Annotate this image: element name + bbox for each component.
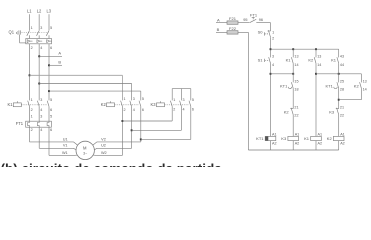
contactor K3 contact terminal 4	[183, 107, 185, 111]
junction rail2a col1	[270, 73, 272, 75]
svg-text:1: 1	[173, 98, 175, 102]
svg-text:2: 2	[31, 46, 33, 50]
wire K2 22 to K3 coil	[292, 115, 294, 137]
svg-text:KT1: KT1	[280, 83, 288, 88]
contactor K1 label	[7, 102, 13, 107]
star bridge bar of K3	[172, 88, 191, 90]
terminal K3-A1	[295, 133, 300, 137]
svg-text:2: 2	[124, 108, 126, 112]
svg-text:A2: A2	[295, 141, 300, 145]
terminal K2-A1	[340, 133, 345, 137]
svg-text:A1: A1	[295, 133, 300, 137]
svg-text:6: 6	[50, 108, 52, 112]
contactor K2 contact 3-4 blade	[130, 101, 132, 107]
contactor K1 contact terminal 4	[40, 108, 42, 112]
svg-text:96: 96	[259, 18, 263, 22]
svg-text:K2: K2	[327, 136, 333, 141]
wire KT1 28 to K3 21	[338, 88, 340, 108]
contactor K2 label	[101, 102, 107, 107]
timer contact KT1 15-18 blade	[288, 82, 293, 88]
wire K2-6 down to V2	[140, 106, 142, 141]
terminal K2-14	[317, 63, 321, 67]
terminal K1-43	[340, 54, 344, 58]
contactor K1 contact 5-6 blade	[47, 101, 49, 107]
contact K1 43-44 label	[331, 58, 337, 63]
overload FT1 terminal 6	[50, 128, 52, 132]
svg-text:14: 14	[317, 63, 321, 67]
svg-text:K2: K2	[284, 110, 290, 115]
rail1 after S0	[271, 48, 339, 50]
caption (clipped)	[1, 162, 223, 177]
pushbutton S1 label	[258, 58, 264, 63]
svg-text:V2: V2	[101, 137, 106, 141]
junction K2-2 bridge	[121, 120, 123, 122]
svg-text:K1: K1	[331, 58, 337, 63]
wire col5 return to col4	[339, 88, 362, 99]
terminal K1-A2	[318, 141, 323, 145]
svg-text:U1: U1	[63, 137, 68, 141]
breaker Q1 pole terminal 5	[50, 26, 52, 30]
terminal KT1-25	[340, 79, 344, 83]
svg-text:25: 25	[340, 79, 344, 83]
node L3	[47, 9, 52, 14]
svg-text:2: 2	[31, 128, 33, 132]
node L1	[27, 9, 32, 14]
overload FT1 NC contact 95-96	[250, 17, 256, 22]
svg-text:K2: K2	[308, 58, 314, 63]
terminal K2-22	[294, 114, 298, 118]
node B (control)	[217, 27, 220, 32]
contactor K1 contact 1-2 blade	[28, 101, 30, 107]
breaker Q1 mechanical link (dashed)	[22, 32, 49, 34]
terminal K1-44	[340, 63, 344, 67]
terminal K1-14	[294, 63, 298, 67]
svg-text:15: 15	[294, 79, 298, 83]
svg-text:L1: L1	[27, 9, 32, 14]
overload FT1 terminal 3	[40, 115, 42, 119]
breaker Q1 magnetic trip symbol at x=29.5	[27, 40, 32, 43]
svg-text:4: 4	[40, 128, 42, 132]
svg-text:3: 3	[133, 97, 135, 101]
contact K1 43-44 blade	[337, 57, 339, 63]
motor M1 circle	[76, 141, 94, 159]
label U2	[101, 144, 106, 148]
fuse F22	[227, 31, 238, 34]
overload relay FT1 box	[26, 121, 52, 127]
svg-text:6: 6	[50, 128, 52, 132]
pushbutton S0 plunger	[265, 32, 269, 35]
wire L2 drop	[38, 14, 40, 30]
wire motor U2 lead	[94, 148, 131, 150]
wire Q1 operator to trip box	[20, 35, 26, 43]
svg-text:1: 1	[31, 115, 33, 119]
svg-text:43: 43	[340, 54, 344, 58]
terminal K2-13 (parallel)	[363, 79, 367, 83]
terminal KT1-A2	[272, 141, 277, 145]
wire phase1 breaker to K1	[29, 44, 31, 101]
contact K1 13-14 blade	[291, 57, 293, 63]
svg-text:3: 3	[40, 98, 42, 102]
terminal K3-21	[340, 106, 344, 110]
svg-text:18: 18	[294, 88, 298, 92]
wire S0 to rail1	[270, 37, 272, 57]
contactor K1 contact terminal 6	[50, 108, 52, 112]
svg-text:S0: S0	[258, 29, 264, 34]
svg-text:Q1: Q1	[9, 30, 15, 35]
wire motor V2 lead	[92, 142, 141, 146]
terminal K2-21	[294, 106, 298, 110]
svg-text:28: 28	[340, 88, 344, 92]
breaker Q1 pole 1 blade	[27, 30, 30, 38]
svg-text:1: 1	[124, 97, 126, 101]
wire K3 coil to rail	[292, 141, 294, 150]
contact K2 21-22 blade (NC)	[290, 108, 293, 115]
terminal K1-A1	[318, 133, 323, 137]
svg-text:F22: F22	[229, 26, 237, 31]
terminal KT1-15	[294, 79, 298, 83]
terminal K3-22	[340, 114, 344, 118]
svg-text:K3: K3	[281, 136, 287, 141]
svg-text:6: 6	[192, 107, 194, 111]
contactor K1 contact terminal 2	[31, 108, 33, 112]
wire A-rail to S0	[270, 23, 272, 31]
svg-text:L3: L3	[47, 9, 52, 14]
contactor coil K3	[288, 136, 299, 140]
svg-text:KT1: KT1	[256, 136, 264, 141]
contactor K3 contact terminal 2	[173, 107, 175, 111]
svg-text:3: 3	[272, 54, 274, 58]
contact K2 21-22 label	[284, 110, 290, 115]
pushbutton S1 plunger	[265, 59, 269, 62]
wire FT1 to motor V1	[39, 127, 76, 150]
wire K2-4 down to U2	[131, 106, 133, 148]
contact K3 21-22 label	[329, 110, 335, 115]
contactor K3 label	[150, 102, 156, 107]
svg-text:F21: F21	[229, 16, 237, 21]
svg-text:K1: K1	[7, 102, 13, 107]
contactor K1 contact terminal 5	[50, 98, 52, 102]
contactor K1 coil symbol	[13, 101, 21, 107]
svg-text:5: 5	[50, 98, 52, 102]
svg-text:2: 2	[173, 107, 175, 111]
pushbutton S0 label	[258, 29, 264, 34]
svg-text:A: A	[58, 51, 61, 56]
contact K1 13-14 label	[286, 58, 292, 63]
node A tap junction	[38, 55, 40, 57]
svg-text:4: 4	[40, 108, 42, 112]
terminal 95	[243, 18, 247, 22]
breaker Q1 pole terminal 1	[31, 26, 33, 30]
junction phase1 to K2 feed	[29, 74, 31, 76]
node L2	[37, 9, 42, 14]
contactor coil K2	[333, 136, 344, 140]
contactor coil K1 label	[304, 136, 310, 141]
junction K2-4 bridge	[131, 129, 133, 131]
wire K1 2 to FT1	[29, 106, 31, 121]
timer coil KT1	[265, 136, 276, 140]
wire K2 14 to K1 coil	[315, 63, 317, 136]
overload FT1 heater element at x=49.0	[47, 121, 49, 127]
pushbutton S1 NO contact 3-4	[269, 57, 271, 63]
node B	[58, 60, 61, 65]
wire rail1 to K2 13	[315, 49, 317, 57]
overload FT1 terminal 4	[40, 128, 42, 132]
wire FT1 to motor W1	[49, 127, 78, 155]
terminal KT1-18	[294, 88, 298, 92]
label W1	[62, 151, 68, 155]
terminal K2-A2	[340, 141, 345, 145]
contactor K2 contact 1-2 blade	[121, 101, 123, 107]
breaker Q1 pole 3 blade	[37, 30, 40, 38]
wire S1 to KT1 coil	[270, 63, 272, 136]
wire bridge K2-4 to K3-4	[132, 106, 182, 130]
svg-text:6: 6	[142, 108, 144, 112]
wire star bar to K3 contact at x=190.8	[190, 89, 192, 101]
label U1	[63, 137, 68, 141]
breaker Q1 magnetic trip symbol at x=39.2	[37, 40, 42, 43]
wire KT1 18 to K2 21	[292, 88, 294, 108]
wire node B to fuse F22	[216, 31, 227, 33]
overload relay FT1 label	[16, 121, 24, 126]
svg-text:K2: K2	[101, 102, 107, 107]
svg-text:13: 13	[317, 54, 321, 58]
contact K2 13-14 (parallel) label	[354, 83, 360, 88]
svg-text:4: 4	[40, 46, 42, 50]
wire FT1 to motor U1	[30, 127, 79, 146]
svg-text:(b) circuito de comando da par: (b) circuito de comando da partida	[1, 162, 223, 168]
wire K2 coil to rail	[338, 141, 340, 150]
fuse F22 label	[229, 26, 237, 31]
contactor K3 coil symbol	[157, 101, 165, 107]
node B tap junction	[48, 64, 50, 66]
node A	[58, 51, 61, 56]
svg-text:5: 5	[142, 97, 144, 101]
terminal S0-2	[272, 37, 274, 41]
contactor K2 link (dashed)	[115, 104, 140, 106]
breaker Q1 magnetic trip symbol at x=49.0	[47, 40, 52, 43]
breaker Q1 operator	[16, 30, 20, 34]
terminal S1-3	[272, 54, 274, 58]
contactor coil K2 label	[327, 136, 333, 141]
breaker Q1 output terminal 4	[40, 46, 42, 50]
wire F21 to FT1 contact	[238, 22, 250, 24]
wire star bar to K3 contact at x=181.4	[180, 89, 182, 101]
wire rail1 to K1 43	[338, 49, 340, 57]
junction rail2b col3	[315, 73, 317, 75]
contactor K3 link (dashed)	[165, 104, 190, 106]
svg-text:A: A	[217, 17, 220, 22]
contactor K1 link (dashed)	[21, 104, 47, 106]
breaker Q1 pole 5 blade	[46, 30, 49, 38]
svg-text:B: B	[58, 60, 61, 65]
breaker Q1 pole terminal 3	[40, 26, 42, 30]
svg-text:KT1: KT1	[325, 83, 333, 88]
contactor K2 contact terminal 6	[142, 108, 144, 112]
wire rail1 to K1 13	[292, 49, 294, 57]
wire L3 drop	[48, 14, 50, 30]
wire phase2 to K2 contact 3	[39, 84, 131, 101]
wire phase2 breaker to K1	[38, 44, 40, 101]
contactor coil K1	[311, 136, 322, 140]
overload FT1 heater element at x=39.2	[37, 121, 39, 127]
junction rail1 col3	[315, 48, 317, 50]
contact K2 13-14 (parallel) blade	[360, 82, 362, 88]
wire phase3 to K2 contact 5	[49, 91, 141, 100]
wire K1 14 to rail2a	[292, 63, 294, 82]
label FT1 (control)	[250, 12, 258, 17]
contactor K2 contact terminal 4	[133, 108, 135, 112]
wire tap to node B	[49, 64, 62, 66]
overload FT1 terminal 5	[50, 115, 52, 119]
svg-text:A2: A2	[340, 141, 345, 145]
contactor K1 contact terminal 3	[40, 98, 42, 102]
breaker Q1 trip unit box	[26, 39, 52, 44]
contactor K3 contact terminal 1	[173, 98, 175, 102]
terminal 96	[259, 18, 263, 22]
wire bridge K2-2 to K3-2	[122, 106, 172, 121]
wire K2-2 down to W2	[121, 106, 123, 155]
overload FT1 terminal 2	[31, 128, 33, 132]
svg-text:M: M	[83, 146, 87, 151]
contactor K2 contact 5-6 blade	[139, 101, 141, 107]
wire F22 to bottom rail	[238, 32, 248, 150]
contactor K1 contact 3-4 blade	[37, 101, 39, 107]
node A (control)	[217, 17, 220, 22]
svg-text:22: 22	[294, 114, 298, 118]
breaker Q1 output terminal 6	[50, 46, 52, 50]
svg-text:1: 1	[31, 98, 33, 102]
svg-text:44: 44	[340, 63, 344, 67]
svg-text:W1: W1	[62, 151, 68, 155]
junction K2-6 bridge	[140, 138, 142, 140]
svg-text:4: 4	[133, 108, 135, 112]
contactor K2 coil symbol	[107, 101, 115, 107]
junction rail2b col4	[338, 73, 340, 75]
wire bridge K2-6 to K3-6	[141, 106, 191, 139]
label V1	[63, 144, 68, 148]
svg-text:4: 4	[183, 107, 185, 111]
label W2	[101, 151, 107, 155]
junction phase2 to K2 feed	[38, 83, 40, 85]
contactor K3 contact terminal 5	[192, 98, 194, 102]
terminal KT1-A1	[272, 133, 277, 137]
wire K1 coil to rail	[315, 141, 317, 150]
svg-text:K1: K1	[304, 136, 310, 141]
svg-text:95: 95	[243, 18, 247, 22]
wire KT1 coil to rail	[270, 141, 272, 150]
svg-text:3~: 3~	[83, 151, 87, 155]
terminal KT1-28	[340, 88, 344, 92]
breaker Q1 label	[9, 30, 15, 35]
svg-text:14: 14	[363, 88, 367, 92]
overload FT1 terminal 1	[31, 115, 33, 119]
svg-text:2: 2	[31, 108, 33, 112]
wire L1 drop	[29, 14, 31, 30]
label V2	[101, 137, 106, 141]
svg-text:A2: A2	[318, 141, 323, 145]
terminal S1-4	[272, 63, 274, 67]
contactor K2 contact terminal 5	[142, 97, 144, 101]
wire node A to fuse F21	[216, 22, 227, 24]
motor M label	[83, 146, 87, 151]
svg-text:S1: S1	[258, 58, 264, 63]
svg-text:22: 22	[340, 114, 344, 118]
contactor K3 contact 1-2 blade	[170, 101, 172, 107]
svg-text:3: 3	[40, 115, 42, 119]
contactor K3 contact 5-6 blade	[189, 101, 191, 107]
fuse F21	[227, 21, 238, 24]
svg-text:21: 21	[340, 106, 344, 110]
svg-text:A1: A1	[318, 133, 323, 137]
svg-text:K1: K1	[286, 58, 292, 63]
wire motor W2 lead	[93, 154, 123, 156]
wire phase1 to K2 contact 1	[30, 75, 123, 100]
terminal K2-14 (parallel)	[363, 88, 367, 92]
wire 96 to S0	[256, 22, 270, 24]
rail2a col1-col2	[271, 73, 294, 75]
contact K2 13-14 blade	[314, 57, 316, 63]
wire K1 44 to KT1 25	[338, 63, 340, 82]
junction rail2a col2	[292, 73, 294, 75]
wire star bar to K3 contact at x=172.2	[171, 89, 173, 101]
contactor K1 contact terminal 1	[31, 98, 33, 102]
svg-text:A1: A1	[340, 133, 345, 137]
svg-text:V1: V1	[63, 144, 68, 148]
svg-text:U2: U2	[101, 144, 106, 148]
terminal K1-13	[294, 54, 298, 58]
junction rail1 col2	[292, 48, 294, 50]
wire phase3 breaker to K1	[48, 44, 50, 101]
contactor K2 contact terminal 3	[133, 97, 135, 101]
svg-text:1: 1	[31, 26, 33, 30]
wire K3 22 to K2 coil	[338, 115, 340, 137]
svg-text:K2: K2	[354, 83, 360, 88]
contact K3 21-22 blade (NC)	[336, 108, 339, 115]
contactor K2 contact terminal 1	[124, 97, 126, 101]
wire K1 4 to FT1	[38, 106, 40, 121]
svg-text:5: 5	[50, 26, 52, 30]
contactor K3 contact 3-4 blade	[180, 101, 182, 107]
fuse F21 label	[229, 16, 237, 21]
svg-text:4: 4	[272, 63, 274, 67]
svg-text:6: 6	[50, 46, 52, 50]
overload FT1 heater element at x=29.5	[28, 121, 30, 127]
svg-text:2: 2	[272, 37, 274, 41]
svg-text:1: 1	[272, 31, 274, 35]
timer contact KT1 25-28 label	[325, 83, 333, 88]
timer coil KT1 label	[256, 136, 264, 141]
svg-text:L2: L2	[37, 9, 42, 14]
terminal S0-1	[272, 31, 274, 35]
contact K2 13-14 label	[308, 58, 314, 63]
svg-text:3: 3	[183, 98, 185, 102]
terminal K2-13	[317, 54, 321, 58]
timer contact KT1 25-28 blade	[334, 82, 339, 88]
rail2b col3-col5	[316, 73, 361, 75]
svg-text:A1: A1	[272, 133, 277, 137]
svg-text:B: B	[217, 27, 220, 32]
terminal K3-A2	[295, 141, 300, 145]
pushbutton S0 NC contact 1-2	[268, 30, 271, 37]
svg-text:13: 13	[363, 79, 367, 83]
motor 3~ label	[83, 151, 87, 155]
svg-text:K3: K3	[150, 102, 156, 107]
svg-text:5: 5	[192, 98, 194, 102]
svg-text:3: 3	[40, 26, 42, 30]
svg-text:K3: K3	[329, 110, 335, 115]
contactor coil K3 label	[281, 136, 287, 141]
junction rail1 col1	[270, 48, 272, 50]
